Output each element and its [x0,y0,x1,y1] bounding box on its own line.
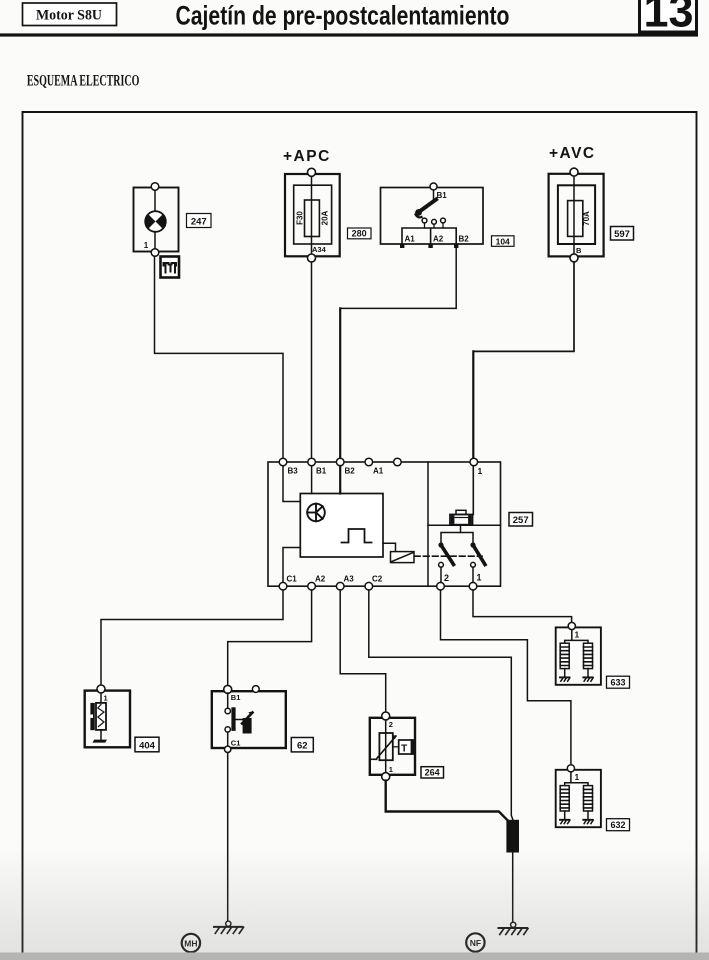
terminal bottom of 597 [570,254,578,262]
svg-text:70A: 70A [582,211,591,226]
terminal top of 247 [151,183,159,191]
svg-text:404: 404 [139,741,156,752]
terminal A2 bottom [308,582,316,590]
svg-text:247: 247 [191,216,207,227]
terminal top of 597 [570,168,578,176]
terminal 1 of 264 [382,773,390,781]
control unit 257 box [268,462,501,586]
svg-text:2: 2 [444,573,449,583]
header: page number 13 box [640,0,697,37]
wire 247 to B3 [155,257,284,459]
svg-text:62: 62 [297,741,308,752]
wire 264 to shield bar [386,781,508,821]
terminal B1 of 104 [430,183,437,190]
svg-text:1: 1 [104,694,108,703]
label box 62 [291,738,313,752]
wire B2 to module [339,466,341,494]
thermal contact of 62 [225,693,236,746]
svg-text:B3: B3 [288,467,299,476]
label box 257 [509,513,533,527]
wire 1 to 633 [473,590,572,623]
wire 597 to pin 1 [474,262,574,352]
svg-text:1: 1 [478,466,483,476]
svg-text:C2: C2 [372,575,383,584]
svg-text:A2: A2 [315,575,326,584]
wire contact2 to terminal [440,567,442,582]
glow plug 632 left [560,786,570,824]
terminal bottom of 247 [151,249,159,257]
svg-text:597: 597 [614,229,630,240]
timer lamp symbol in module [307,504,325,522]
wire A2 to 62 [228,590,312,685]
label box 264 [421,767,444,778]
wire 104 B2 to box B2 [341,248,456,308]
wire 2 to 632 [441,590,571,765]
terminal top of 280 [308,168,316,176]
svg-text:1: 1 [575,773,580,782]
thermal actuator of 62 [236,712,253,734]
wire pin1 to fusible link [472,466,474,515]
wire C1 to 404 [101,590,283,685]
label box 632 [607,819,630,831]
terminal C1 of 62 [225,746,231,752]
actuation dashed link [415,555,483,557]
wire B3 to module [283,466,300,502]
svg-text:633: 633 [610,678,625,688]
terminal 1 top [470,458,478,466]
svg-text:B1: B1 [437,191,448,200]
svg-text:T: T [401,743,407,754]
svg-text:C1: C1 [287,575,298,584]
wire C1 to module [283,548,300,583]
svg-text:Motor S8U: Motor S8U [36,8,102,24]
svg-text:632: 632 [610,820,625,830]
plug bus of 632 [565,772,588,786]
terminal spare top [394,458,402,466]
terminal C1 bottom [279,582,287,590]
terminal B3 [279,458,287,466]
fuse holder 597 outer box [549,174,604,257]
glow plugs 632 box [556,770,601,827]
internal shelf of 257 relay section [428,524,501,526]
label box 633 [607,676,630,688]
shield sleeve bar [506,820,519,853]
thermal switch 62 box [212,691,286,748]
bottom tabs of 104 [400,244,458,248]
svg-text:A1: A1 [373,467,384,476]
label box 247 [187,214,212,228]
svg-text:1: 1 [389,765,393,774]
svg-text:A2: A2 [433,235,444,244]
svg-text:A34: A34 [312,245,327,254]
svg-text:1: 1 [477,573,482,583]
thermistor of 264 [372,720,397,773]
svg-text:280: 280 [352,229,367,239]
label box 104 [492,236,515,247]
temperature sensor 264 box [370,718,415,775]
header: Motor S8U box [23,3,117,26]
wire C2 to shield bar [369,590,513,820]
svg-text:1: 1 [144,241,149,250]
glow plug 633 left [560,643,570,681]
internal divider of 257 [427,462,429,586]
terminal B1 [308,458,316,466]
svg-text:F30: F30 [296,211,305,225]
terminal 1 of 404 [97,685,105,693]
relay coil [391,552,415,563]
terminal spare of 62 [252,686,259,693]
svg-text:257: 257 [513,515,529,526]
pulse waveform symbol in module [342,529,372,543]
relay contact 1 [470,542,485,567]
electronic module box inside 257 [300,494,383,558]
terminal 1 of 633 [568,622,575,629]
switch unit 104 box [381,188,484,245]
fuse holder 597 inner box [558,185,595,244]
svg-text:B2: B2 [459,235,470,244]
terminal A1 [365,458,373,466]
header rule [0,33,698,36]
svg-text:264: 264 [425,768,440,778]
svg-text:A3: A3 [344,575,355,584]
bottom page edge strip [0,953,709,960]
lamp symbol of 247 [145,211,166,232]
svg-text:2: 2 [389,720,393,729]
terminal B1 of 62 [224,685,232,693]
contact bracket of 104 [402,228,456,244]
fuse holder 280 inner box [294,185,332,244]
wire contact1 to terminal [472,567,474,582]
temperature tag T of 264 [393,739,415,755]
warning lamp 247 box [134,188,179,252]
glow plugs 633 box [556,627,601,684]
relay contact 2 [438,542,453,567]
wire link to contact bus [460,525,462,532]
plug bus of 633 [565,630,588,644]
svg-text:B1: B1 [231,693,241,702]
connector icon under 247 [161,257,180,278]
svg-text:A1: A1 [405,235,416,244]
svg-text:B: B [576,246,582,255]
label box 280 [348,228,372,239]
svg-text:C1: C1 [231,739,241,748]
ground tag MH [182,934,200,952]
svg-text:20A: 20A [321,210,330,225]
ground tag NF [466,933,484,951]
terminal C2 bottom [365,582,373,590]
relay contact bus [441,533,473,544]
fuse holder 280 outer box [285,174,340,256]
ground MH [214,921,244,933]
svg-text:B1: B1 [316,467,327,476]
wire module to relay coil [383,543,396,551]
terminal 1 of 632 [567,765,574,772]
svg-text:13: 13 [643,0,693,37]
casing bar of 404 [90,703,94,730]
terminal bottom of 280 [308,254,316,262]
terminal A3 bottom [336,582,344,590]
svg-text:ESQUEMA ELECTRICO: ESQUEMA ELECTRICO [27,72,139,89]
glow plug 632 right [583,786,593,824]
svg-text:+APC: +APC [283,148,331,165]
base plate of 404 [92,740,107,743]
ground NF [499,922,529,934]
wire A3 to 264 [340,590,386,712]
fuse 70A element [568,176,583,254]
svg-text:Cajetín de pre-postcalentamien: Cajetín de pre-postcalentamiento [176,1,510,31]
wire 280 to B1 [311,262,313,458]
terminal B2 [336,458,344,466]
wire B1 to module [311,466,313,494]
wire bar to ground NF [512,853,514,923]
svg-text:104: 104 [496,236,510,246]
resistor unit 404 box [85,691,130,748]
fuse F30 element [305,176,320,254]
switch lever of 104 [415,190,436,217]
contact studs of 104 [422,218,445,228]
fusible link element [450,510,473,524]
heater element of 404 [96,693,106,739]
terminal 1 bottom [469,582,477,590]
svg-text:1: 1 [575,631,580,640]
terminal 2 bottom [437,582,445,590]
label box 597 [611,227,634,241]
glow plug 633 right [583,643,593,681]
svg-text:+AVC: +AVC [549,145,596,162]
terminal 2 of 264 [382,712,390,720]
wire 62 to ground MH [227,753,229,923]
svg-text:B2: B2 [345,467,356,476]
label box 404 [135,737,159,752]
